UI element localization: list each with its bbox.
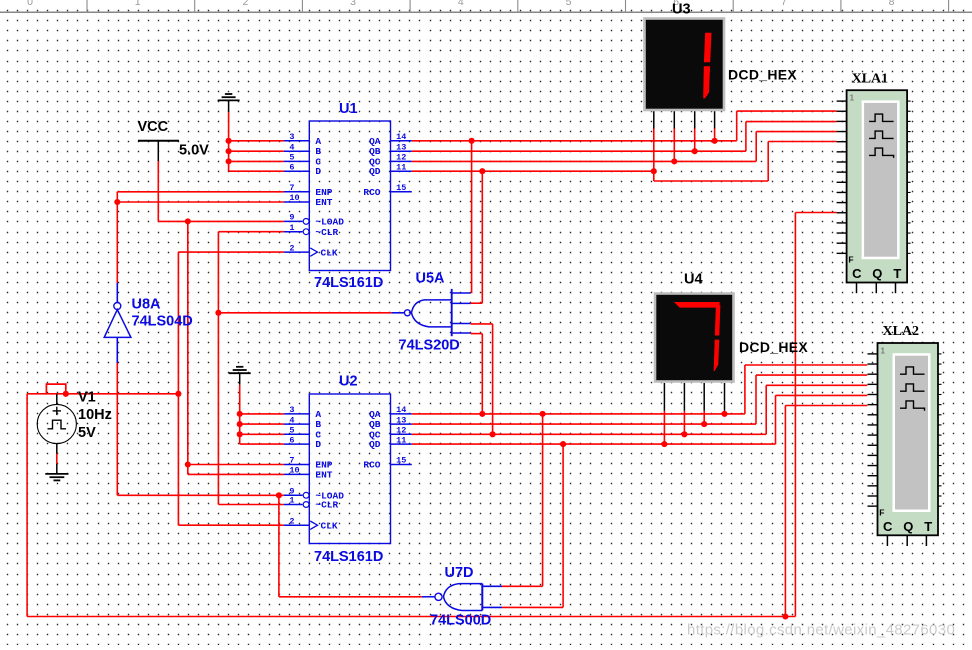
svg-text:15: 15: [396, 183, 406, 193]
svg-text:0: 0: [27, 0, 33, 8]
svg-text:14: 14: [396, 405, 406, 415]
svg-text:13: 13: [396, 142, 406, 152]
svg-text:~CLR: ~CLR: [315, 500, 338, 511]
svg-text:CLK: CLK: [321, 520, 338, 531]
svg-text:V1: V1: [78, 390, 96, 406]
svg-text:1: 1: [850, 94, 855, 103]
svg-text:U3: U3: [672, 2, 691, 18]
svg-text:D: D: [315, 166, 321, 177]
svg-text:9: 9: [289, 213, 294, 223]
svg-text:RCO: RCO: [363, 460, 380, 471]
svg-text:U4: U4: [684, 272, 703, 288]
svg-text:1: 1: [289, 223, 294, 233]
svg-text:QD: QD: [369, 439, 381, 450]
svg-text:U5A: U5A: [416, 271, 446, 287]
svg-text:11: 11: [396, 162, 406, 172]
svg-text:6: 6: [289, 162, 294, 172]
svg-text:8: 8: [889, 0, 895, 8]
svg-text:DCD_HEX: DCD_HEX: [739, 339, 808, 355]
svg-text:3: 3: [350, 0, 356, 8]
svg-text:74LS00D: 74LS00D: [430, 613, 491, 629]
svg-text:CLK: CLK: [321, 247, 338, 258]
svg-text:T: T: [924, 519, 932, 534]
svg-text:DCD_HEX: DCD_HEX: [728, 67, 797, 83]
svg-text:XLA2: XLA2: [883, 324, 920, 339]
svg-text:6: 6: [289, 435, 294, 445]
svg-text:74LS20D: 74LS20D: [399, 338, 460, 354]
svg-text:14: 14: [396, 132, 406, 142]
svg-text:5: 5: [566, 0, 572, 8]
svg-text:F: F: [879, 508, 884, 518]
svg-text:VCC: VCC: [138, 119, 169, 135]
svg-text:12: 12: [396, 153, 406, 163]
svg-text:15: 15: [396, 456, 406, 466]
svg-text:2: 2: [289, 243, 294, 253]
svg-text:U8A: U8A: [132, 297, 162, 313]
svg-text:10Hz: 10Hz: [78, 407, 112, 423]
svg-text:7: 7: [781, 0, 787, 8]
svg-text:74LS161D: 74LS161D: [314, 275, 383, 291]
svg-text:1: 1: [881, 347, 886, 356]
svg-text:7: 7: [289, 183, 294, 193]
svg-text:XLA1: XLA1: [852, 71, 889, 86]
svg-text:10: 10: [289, 466, 299, 476]
svg-text:A: A: [315, 136, 321, 147]
svg-text:5: 5: [289, 153, 294, 163]
svg-text:13: 13: [396, 415, 406, 425]
svg-text:F: F: [848, 255, 853, 265]
svg-text:10: 10: [289, 193, 299, 203]
svg-text:4: 4: [289, 142, 294, 152]
svg-text:ENT: ENT: [315, 197, 332, 208]
svg-text:74LS161D: 74LS161D: [314, 549, 383, 565]
svg-text:T: T: [893, 266, 901, 281]
svg-text:~CLR: ~CLR: [315, 227, 338, 238]
svg-text:1: 1: [289, 496, 294, 506]
svg-text:2: 2: [289, 516, 294, 526]
svg-text:2: 2: [242, 0, 248, 8]
svg-text:ENT: ENT: [315, 469, 332, 480]
svg-text:74LS04D: 74LS04D: [132, 314, 193, 330]
svg-text:3: 3: [289, 405, 294, 415]
svg-text:QD: QD: [369, 166, 381, 177]
svg-text:RCO: RCO: [363, 187, 380, 198]
svg-text:D: D: [315, 439, 321, 450]
svg-text:11: 11: [396, 435, 406, 445]
svg-text:https://blog.csdn.net/weixin_4: https://blog.csdn.net/weixin_48276030: [687, 622, 955, 639]
svg-text:C: C: [852, 266, 862, 281]
svg-text:12: 12: [396, 426, 406, 436]
svg-text:QA: QA: [369, 136, 381, 147]
svg-text:4: 4: [289, 415, 294, 425]
svg-text:Q: Q: [903, 519, 913, 534]
svg-text:5V: 5V: [78, 425, 96, 441]
svg-text:7: 7: [289, 456, 294, 466]
svg-text:U1: U1: [339, 101, 358, 117]
svg-text:U7D: U7D: [445, 565, 474, 581]
svg-text:Q: Q: [872, 266, 882, 281]
svg-text:5.0V: 5.0V: [179, 143, 209, 159]
svg-text:U2: U2: [339, 374, 358, 390]
svg-text:4: 4: [458, 0, 464, 8]
svg-text:1: 1: [135, 0, 141, 8]
svg-text:5: 5: [289, 426, 294, 436]
svg-text:C: C: [883, 519, 893, 534]
svg-text:3: 3: [289, 132, 294, 142]
